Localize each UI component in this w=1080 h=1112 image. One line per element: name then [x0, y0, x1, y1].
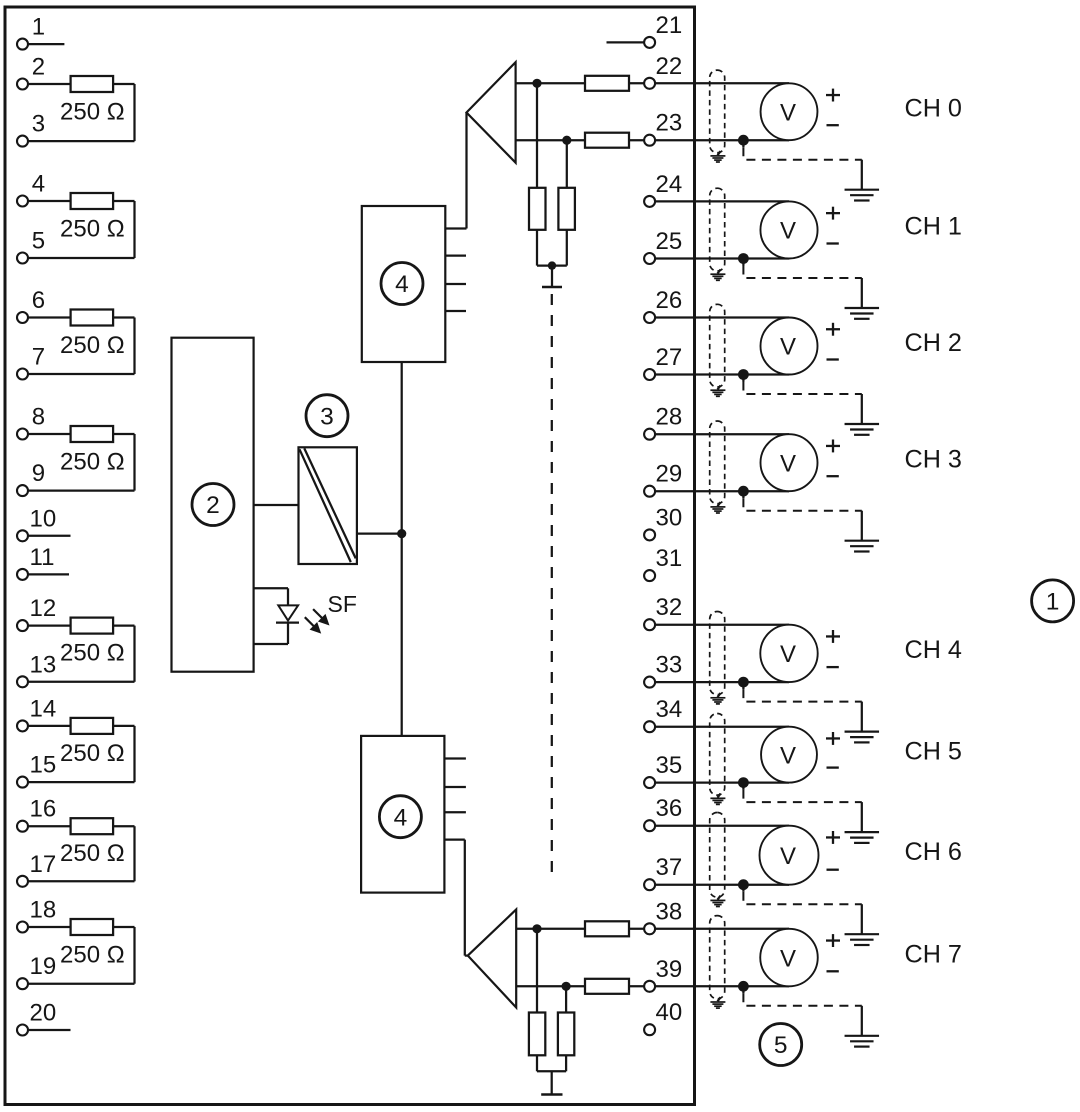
svg-text:4: 4	[395, 271, 409, 298]
svg-text:25: 25	[656, 228, 683, 255]
svg-text:CH 2: CH 2	[905, 329, 962, 357]
svg-text:12: 12	[30, 595, 57, 622]
svg-text:23: 23	[656, 110, 683, 137]
svg-text:17: 17	[30, 851, 57, 878]
svg-text:6: 6	[32, 287, 45, 314]
svg-text:40: 40	[656, 999, 683, 1026]
svg-text:13: 13	[30, 651, 57, 678]
svg-text:V: V	[780, 945, 796, 972]
svg-text:V: V	[780, 641, 796, 668]
svg-text:CH 0: CH 0	[905, 95, 962, 123]
svg-text:4: 4	[394, 804, 408, 831]
svg-text:250 Ω: 250 Ω	[60, 640, 125, 667]
svg-text:5: 5	[32, 228, 45, 255]
svg-text:35: 35	[656, 752, 683, 779]
svg-text:19: 19	[30, 953, 57, 980]
svg-text:250 Ω: 250 Ω	[60, 840, 125, 867]
svg-text:11: 11	[30, 544, 55, 571]
svg-text:10: 10	[30, 505, 57, 532]
svg-text:V: V	[780, 218, 796, 245]
svg-text:V: V	[780, 450, 796, 477]
svg-text:24: 24	[656, 171, 683, 198]
svg-text:3: 3	[320, 403, 334, 430]
svg-text:29: 29	[656, 461, 683, 488]
svg-text:26: 26	[656, 287, 683, 314]
svg-text:8: 8	[32, 404, 45, 431]
svg-text:250 Ω: 250 Ω	[60, 941, 125, 968]
svg-text:250 Ω: 250 Ω	[60, 99, 125, 126]
svg-text:CH 5: CH 5	[905, 737, 962, 765]
svg-text:36: 36	[656, 795, 683, 822]
svg-text:CH 1: CH 1	[905, 213, 962, 241]
svg-text:2: 2	[206, 492, 220, 519]
svg-text:4: 4	[32, 171, 45, 198]
svg-text:1: 1	[32, 14, 45, 41]
svg-text:7: 7	[32, 344, 45, 371]
svg-text:1: 1	[1046, 589, 1060, 616]
svg-text:SF: SF	[328, 591, 357, 617]
svg-text:18: 18	[30, 897, 57, 924]
svg-text:39: 39	[656, 956, 683, 983]
svg-text:32: 32	[656, 594, 683, 621]
svg-text:14: 14	[30, 695, 57, 722]
svg-text:22: 22	[656, 53, 683, 80]
svg-text:34: 34	[656, 696, 683, 723]
svg-text:33: 33	[656, 652, 683, 679]
svg-text:250 Ω: 250 Ω	[60, 332, 125, 359]
svg-text:CH 6: CH 6	[905, 838, 962, 866]
svg-text:16: 16	[30, 796, 57, 823]
svg-text:37: 37	[656, 854, 683, 881]
svg-text:15: 15	[30, 752, 57, 779]
svg-text:250 Ω: 250 Ω	[60, 448, 125, 475]
svg-text:250 Ω: 250 Ω	[60, 216, 125, 243]
svg-text:31: 31	[656, 545, 683, 572]
svg-text:2: 2	[32, 54, 45, 81]
svg-text:V: V	[780, 334, 796, 361]
svg-text:250 Ω: 250 Ω	[60, 740, 125, 767]
svg-text:9: 9	[32, 460, 45, 487]
svg-text:27: 27	[656, 344, 683, 371]
svg-text:V: V	[780, 742, 796, 769]
svg-text:CH 7: CH 7	[905, 940, 962, 968]
svg-text:5: 5	[774, 1032, 788, 1059]
svg-text:3: 3	[32, 111, 45, 138]
svg-text:38: 38	[656, 898, 683, 925]
svg-text:V: V	[780, 843, 796, 870]
svg-text:30: 30	[656, 504, 683, 531]
svg-text:V: V	[780, 99, 796, 126]
svg-text:20: 20	[30, 1000, 57, 1027]
svg-text:CH 4: CH 4	[905, 636, 962, 664]
svg-text:CH 3: CH 3	[905, 445, 962, 473]
svg-text:28: 28	[656, 404, 683, 431]
svg-text:21: 21	[656, 12, 683, 39]
